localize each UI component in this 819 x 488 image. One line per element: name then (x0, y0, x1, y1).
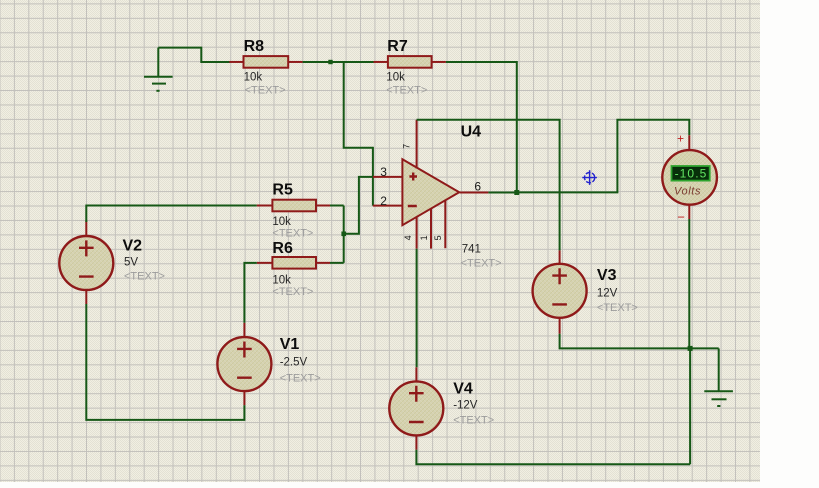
wire output to voltmeter (517, 120, 690, 193)
wire R6 left to V1 (244, 263, 256, 323)
svg-text:6: 6 (474, 180, 481, 194)
node (output junction dot) (514, 190, 519, 195)
wire V2 top to R5 (86, 206, 256, 223)
svg-text:<TEXT>: <TEXT> (245, 84, 286, 96)
origin marker (blue crosshair) (582, 170, 597, 185)
wire V4 bottom rail (416, 450, 690, 465)
pin 1 (430, 208, 432, 248)
wire V1 bottom to V2 bottom (86, 304, 244, 420)
ground (top-left) (144, 48, 173, 91)
svg-text:<TEXT>: <TEXT> (280, 372, 321, 384)
wire voltmeter minus down to ground junction (688, 219, 690, 348)
wire ground junction down to V4 bottom rail (689, 348, 691, 464)
svg-text:1: 1 (419, 235, 429, 240)
wire pin7 supply to V3 (417, 120, 560, 251)
pin 2 (373, 205, 402, 207)
svg-text:3: 3 (380, 165, 387, 179)
voltage source V4 (389, 367, 494, 450)
wire R5 right (330, 205, 344, 207)
svg-text:R6: R6 (272, 240, 293, 257)
svg-text:V2: V2 (123, 237, 143, 254)
svg-text:-2.5V: -2.5V (280, 356, 308, 368)
wire pin4 to V4 (416, 249, 418, 368)
svg-text:−: − (677, 210, 685, 225)
svg-text:V3: V3 (597, 267, 617, 284)
node (junction dot R8/R7 net) (328, 60, 332, 64)
resistor R6 (257, 240, 330, 298)
wire V3 bottom to ground junction (560, 334, 719, 349)
svg-text:Volts: Volts (674, 185, 701, 197)
wire ground to R8 (158, 48, 230, 62)
node (ground junction dot) (688, 346, 693, 351)
wire junction column down to pin 2 (344, 62, 373, 206)
svg-text:<TEXT>: <TEXT> (386, 84, 427, 96)
svg-text:741: 741 (462, 244, 481, 256)
svg-text:5V: 5V (124, 256, 138, 268)
svg-text:R7: R7 (387, 38, 408, 55)
svg-text:10k: 10k (386, 72, 405, 84)
svg-text:R8: R8 (244, 38, 265, 55)
svg-text:R5: R5 (272, 182, 293, 199)
svg-text:U4: U4 (461, 123, 482, 140)
svg-text:<TEXT>: <TEXT> (453, 414, 494, 426)
svg-text:5: 5 (433, 235, 443, 240)
pin 4 (416, 217, 418, 249)
node (junction dot R5/R6 summing) (341, 232, 346, 237)
svg-text:<TEXT>: <TEXT> (124, 271, 165, 283)
svg-text:10k: 10k (244, 72, 263, 84)
svg-text:<TEXT>: <TEXT> (272, 227, 313, 239)
resistor R5 (257, 182, 330, 240)
svg-text:2: 2 (380, 194, 387, 208)
voltage source V1 (217, 323, 320, 405)
wire R8 right to R7 left (303, 61, 374, 63)
wire pin6 to output column (488, 192, 516, 194)
svg-text:<TEXT>: <TEXT> (597, 302, 638, 314)
svg-text:7: 7 (402, 144, 412, 149)
svg-text:10k: 10k (272, 275, 291, 287)
ground (right) (704, 348, 733, 406)
pin 6 (460, 192, 489, 194)
svg-text:+: + (677, 132, 684, 146)
resistor R7 (374, 38, 446, 96)
pin 3 (373, 176, 402, 178)
svg-text:10k: 10k (272, 216, 291, 228)
wire R7 right to output node (446, 62, 517, 192)
svg-text:V1: V1 (280, 336, 300, 353)
svg-text:4: 4 (403, 235, 413, 240)
voltage source V2 (59, 221, 165, 305)
pin 5 (444, 200, 446, 248)
op-amp U4 (402, 123, 501, 269)
svg-text:<TEXT>: <TEXT> (272, 286, 313, 298)
wire pin 3 to summing node (344, 177, 373, 234)
wire R6 right (330, 262, 344, 264)
svg-text:-12V: -12V (453, 400, 478, 412)
voltage source V3 (533, 250, 638, 333)
svg-text:-10.5: -10.5 (675, 167, 708, 181)
wire R5/R6 column (343, 206, 345, 263)
pin 7 (416, 120, 418, 169)
voltmeter (662, 132, 717, 225)
svg-text:12V: 12V (597, 288, 618, 300)
svg-text:<TEXT>: <TEXT> (461, 257, 502, 269)
svg-text:V4: V4 (453, 381, 473, 398)
resistor R8 (229, 38, 302, 96)
